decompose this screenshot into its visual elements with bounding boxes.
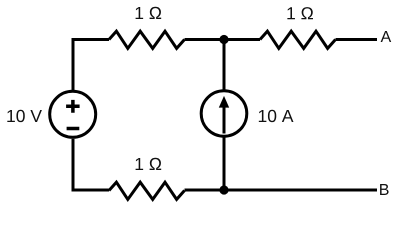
voltage source minus sign	[67, 127, 80, 131]
node junction bottom (dot)	[219, 185, 228, 194]
wire to terminal A	[336, 38, 378, 41]
terminal B label	[380, 184, 389, 195]
voltage source V1 circle	[50, 91, 96, 137]
resistor 1 ohm top-right	[260, 31, 336, 48]
label 10 V	[7, 110, 42, 122]
wire source bottom to bottom rail	[73, 139, 109, 190]
label 1 Ω (top-left resistor)	[136, 7, 162, 19]
resistor 1 ohm top-left	[109, 31, 185, 48]
wire current source bottom	[223, 136, 226, 188]
terminal A label	[381, 31, 392, 42]
label 1 Ω (top-right resistor)	[287, 7, 313, 19]
voltage source plus sign	[66, 100, 80, 113]
node junction top (dot)	[219, 35, 228, 44]
label 10 A	[259, 110, 294, 122]
wire current source top	[223, 44, 226, 91]
wire bottom (resistor to terminal B)	[185, 189, 378, 192]
resistor 1 ohm bottom	[109, 182, 185, 199]
label 1 Ω (bottom resistor)	[136, 158, 162, 170]
wire top middle (resistor to node)	[185, 38, 261, 41]
current source arrow (up)	[223, 106, 226, 134]
wire top-left vertical (source top to top rail)	[73, 40, 109, 91]
current source I1 circle	[201, 91, 247, 137]
